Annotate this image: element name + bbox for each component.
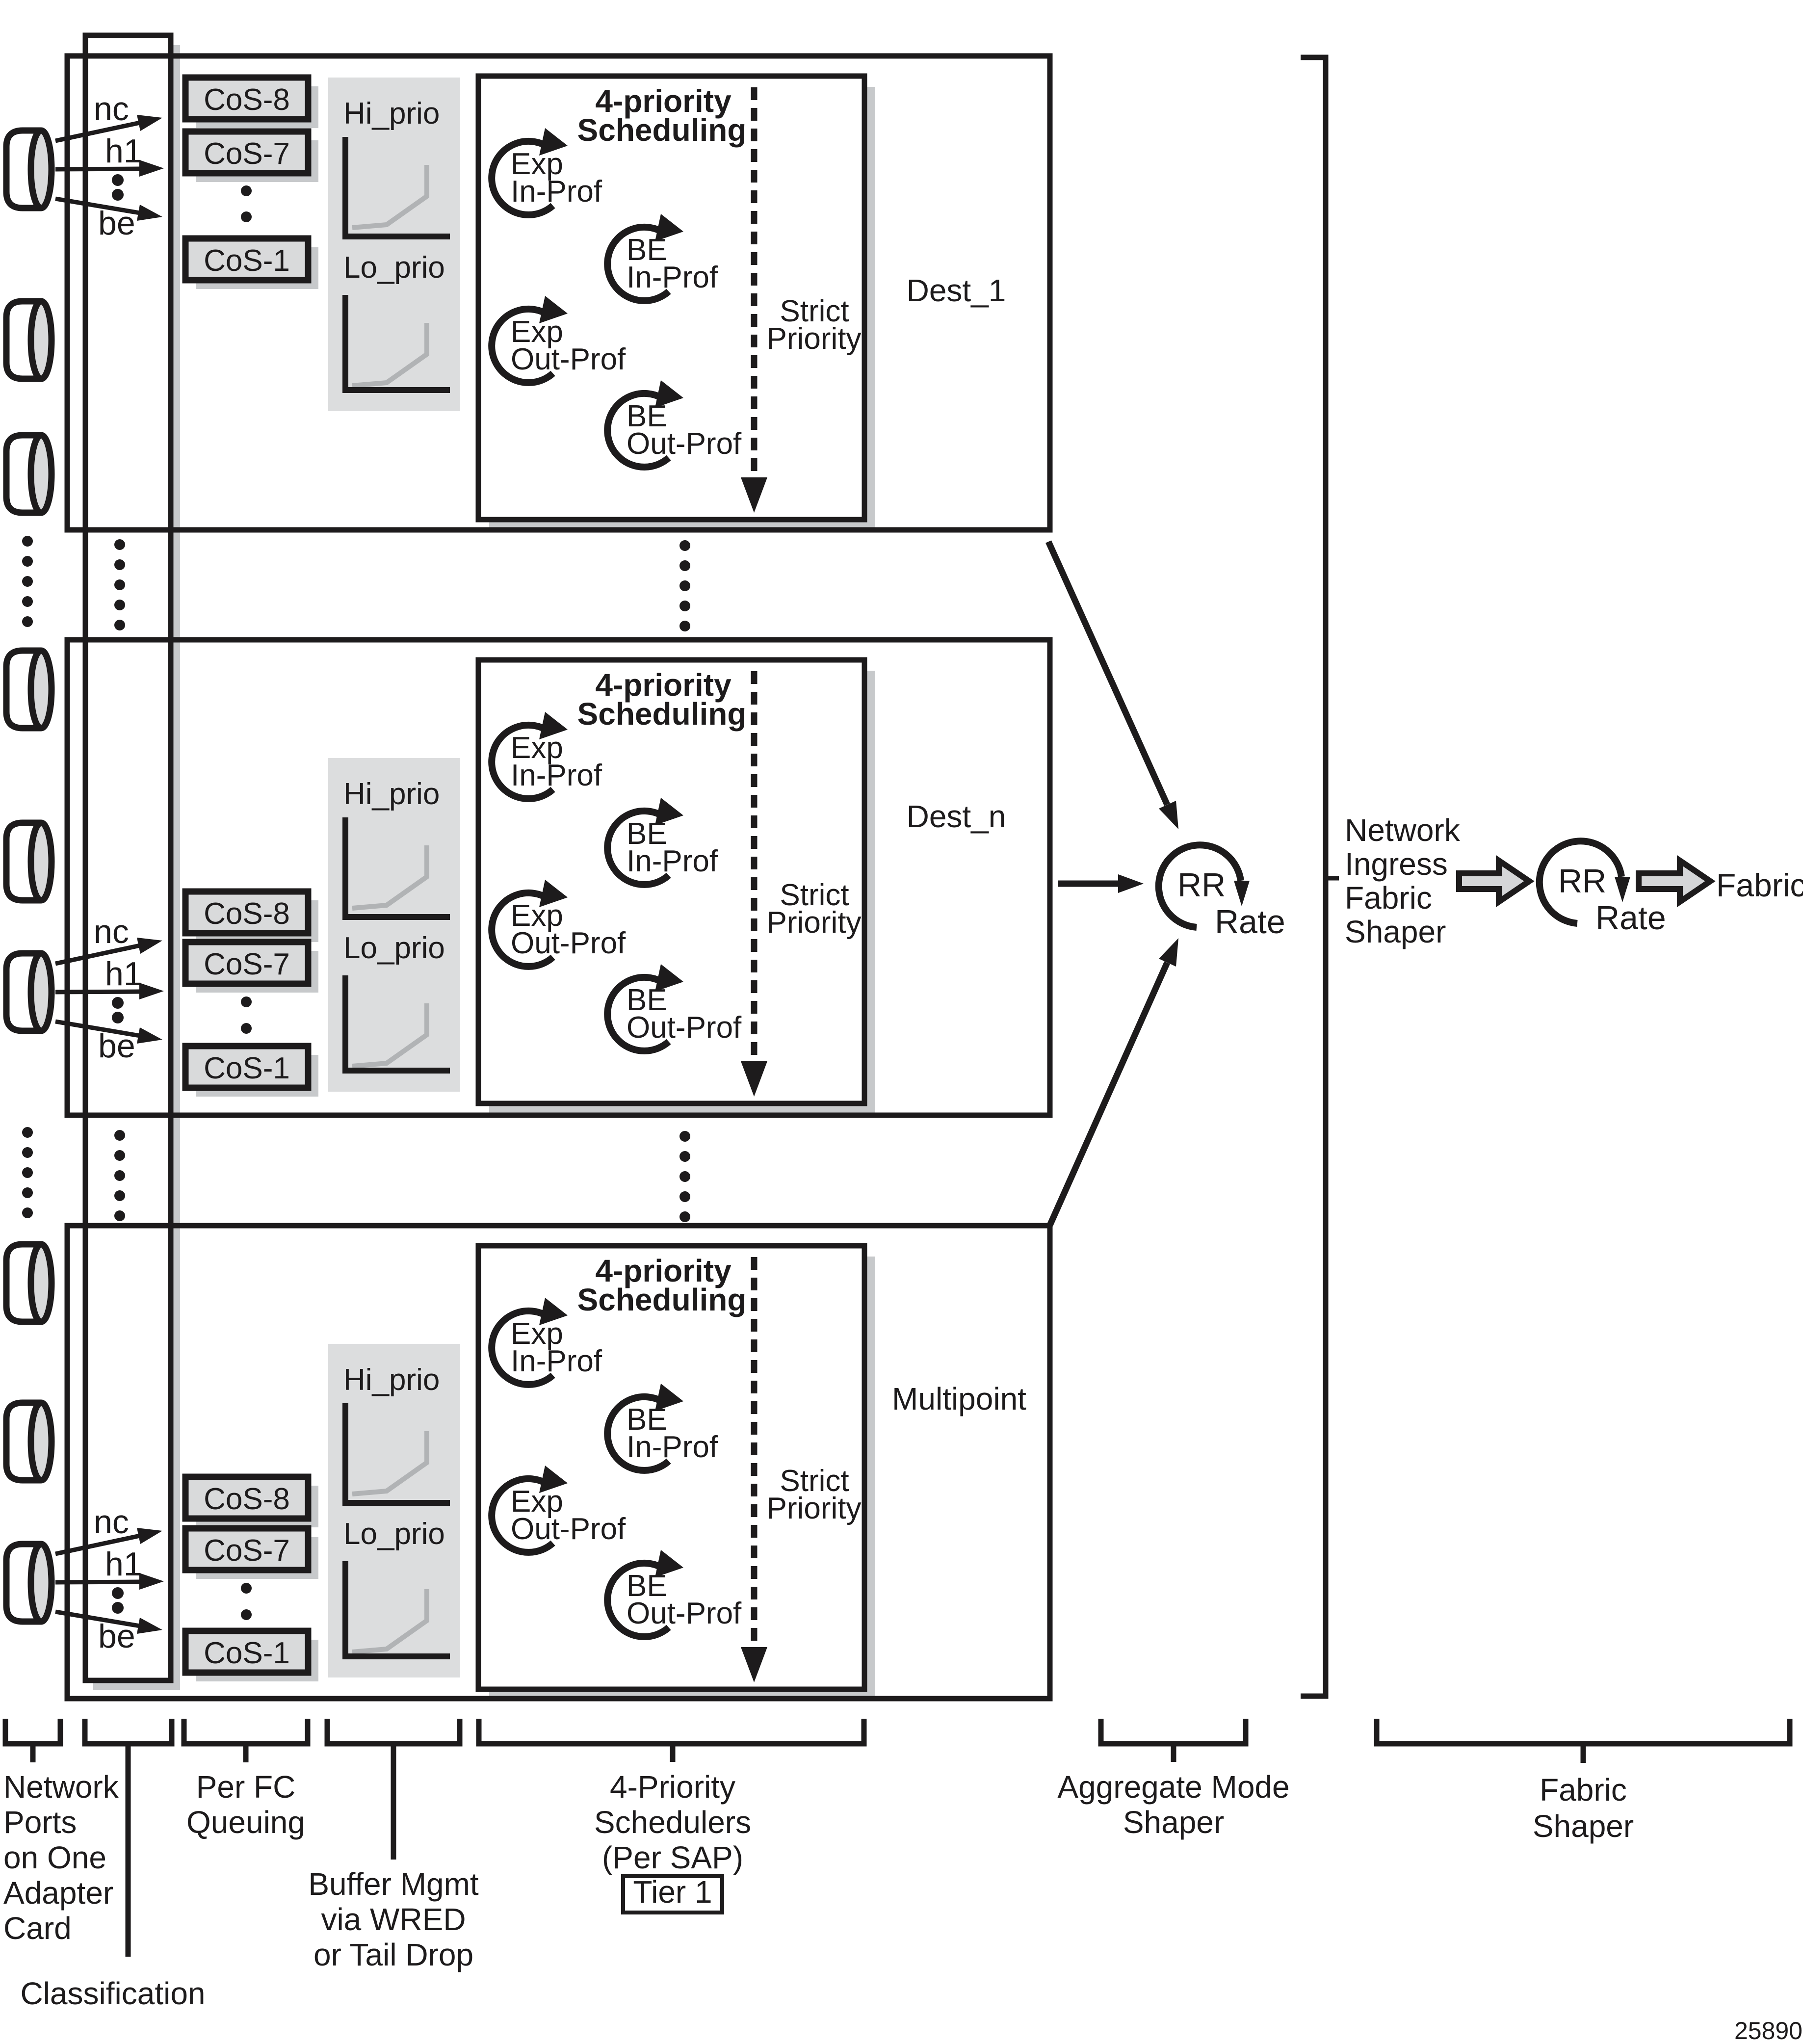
svg-text:Fabric: Fabric xyxy=(1540,1772,1627,1808)
network port cylinder P5 xyxy=(6,823,52,900)
scheduler loop BE Out-Prof (Dest_1) xyxy=(607,393,669,467)
queue box CoS-8 (Dest_n) xyxy=(185,891,308,933)
block arrow to fabric shaper RR xyxy=(1459,861,1529,902)
ellipsis dots classification column gap 1 xyxy=(114,539,125,630)
queue box CoS-8 (Dest_1) xyxy=(185,78,308,119)
graph axes lo (Dest_1) xyxy=(345,295,450,390)
ellipsis dots fan (Dest_1) xyxy=(112,174,124,186)
arrow nc (Dest_1) xyxy=(55,122,142,141)
svg-text:4-Priority: 4-Priority xyxy=(610,1769,735,1805)
classification strip shadow xyxy=(171,45,180,1690)
svg-text:be: be xyxy=(98,1618,135,1655)
svg-text:Adapter: Adapter xyxy=(3,1875,113,1911)
arrow be (Dest_1) xyxy=(55,199,140,213)
network port cylinder P6 xyxy=(6,953,52,1031)
queue box CoS-1 (Dest_n) xyxy=(185,1046,308,1088)
ellipsis dots queues (Dest_1) xyxy=(241,185,252,196)
svg-text:Aggregate Mode: Aggregate Mode xyxy=(1057,1769,1289,1805)
queue box CoS-1 (Multipoint) shadow xyxy=(196,1640,318,1681)
svg-text:Shaper: Shaper xyxy=(1123,1805,1224,1840)
4-priority scheduler box (Multipoint) xyxy=(478,1246,864,1689)
svg-text:h1: h1 xyxy=(105,1546,142,1583)
4-priority scheduler box (Dest_n) xyxy=(478,660,864,1103)
svg-text:Shaper: Shaper xyxy=(1533,1808,1634,1844)
wred curve lo (Multipoint) xyxy=(352,1589,427,1652)
block Multipoint outer box xyxy=(67,1226,1050,1699)
ellipsis dots fan (Dest_n) xyxy=(112,997,124,1009)
block Dest_n outer box xyxy=(67,640,1050,1115)
ellipsis dots queues (Multipoint) xyxy=(241,1583,252,1594)
svg-text:be: be xyxy=(98,205,135,242)
block Dest_1 outer box xyxy=(67,56,1050,530)
arrow block Multipoint to aggregate shaper xyxy=(1050,963,1167,1225)
arrow h1 (Dest_1) xyxy=(55,169,141,169)
arrow block Dest_1 to aggregate shaper xyxy=(1048,542,1167,805)
arrow block Dest_n to aggregate shaper xyxy=(1058,881,1121,887)
brace network ports xyxy=(5,1719,60,1744)
strict priority dashed arrow (Dest_n) xyxy=(751,671,758,1061)
network port cylinder P7 xyxy=(6,1244,52,1322)
queue box CoS-1 (Dest_1) shadow xyxy=(196,247,318,289)
svg-text:Scheduling: Scheduling xyxy=(577,696,747,732)
4-priority scheduler box (Multipoint) shadow xyxy=(489,1257,875,1700)
svg-text:Tier 1: Tier 1 xyxy=(633,1874,712,1910)
scheduler loop BE Out-Prof (Multipoint) xyxy=(607,1563,669,1637)
svg-text:Network: Network xyxy=(1345,812,1461,848)
ellipsis dots port column gap 2 xyxy=(22,1127,33,1218)
svg-text:Lo_prio: Lo_prio xyxy=(343,251,445,285)
queue box CoS-1 (Multipoint) xyxy=(185,1631,308,1673)
svg-text:Out-Prof: Out-Prof xyxy=(627,1011,742,1045)
svg-text:Lo_prio: Lo_prio xyxy=(343,1517,445,1551)
svg-text:Fabric: Fabric xyxy=(1345,880,1432,916)
svg-text:(Per SAP): (Per SAP) xyxy=(602,1840,743,1875)
svg-text:Network: Network xyxy=(3,1769,119,1805)
scheduler loop BE In-Prof (Dest_1) xyxy=(607,227,669,301)
brace fabric shaper xyxy=(1377,1719,1790,1744)
queue box CoS-8 (Multipoint) shadow xyxy=(196,1486,318,1527)
svg-text:CoS-1: CoS-1 xyxy=(204,1051,290,1085)
buffer mgmt panel (Multipoint) xyxy=(328,1344,460,1677)
queue box CoS-8 (Dest_1) shadow xyxy=(196,86,318,128)
wred curve lo (Dest_1) xyxy=(352,323,427,386)
svg-text:Out-Prof: Out-Prof xyxy=(511,926,626,960)
svg-text:RR: RR xyxy=(1177,866,1226,904)
buffer mgmt panel (Dest_1) xyxy=(328,78,460,411)
queue box CoS-8 (Multipoint) xyxy=(185,1477,308,1519)
arrow be (Multipoint) xyxy=(55,1612,140,1626)
buffer mgmt panel (Dest_n) xyxy=(328,758,460,1092)
network port cylinder P2 xyxy=(6,301,52,379)
svg-text:h1: h1 xyxy=(105,955,142,993)
brace buffer mgmt xyxy=(327,1719,460,1744)
block arrow to fabric xyxy=(1639,861,1710,902)
svg-text:Shaper: Shaper xyxy=(1345,914,1446,949)
queue box CoS-7 (Multipoint) xyxy=(185,1528,308,1570)
svg-text:Ports: Ports xyxy=(3,1805,77,1840)
network port cylinder P8 xyxy=(6,1403,52,1480)
tier 1 box xyxy=(623,1876,722,1913)
ellipsis dots scheduler column gap 1 xyxy=(679,540,690,631)
graph axes lo (Dest_n) xyxy=(345,975,450,1071)
svg-text:RR: RR xyxy=(1558,863,1606,900)
ellipsis dots classification column gap 2 xyxy=(114,1130,125,1221)
4-priority scheduler box (Dest_1) shadow xyxy=(489,87,875,530)
svg-text:Priority: Priority xyxy=(767,1492,862,1525)
brace classification xyxy=(85,1719,172,1744)
queue box CoS-7 (Dest_n) shadow xyxy=(196,951,318,993)
svg-text:via WRED: via WRED xyxy=(321,1902,466,1937)
network port cylinder P1 xyxy=(6,131,52,208)
ellipsis dots fan (Multipoint) xyxy=(112,1587,124,1599)
network port cylinder P3 xyxy=(6,435,52,513)
svg-text:Priority: Priority xyxy=(767,322,862,356)
arrow be (Dest_n) xyxy=(55,1022,140,1036)
graph axes hi (Dest_1) xyxy=(345,137,450,236)
strict priority dashed arrow (Dest_1) xyxy=(751,87,758,477)
svg-text:nc: nc xyxy=(94,90,129,128)
graph axes hi (Dest_n) xyxy=(345,817,450,917)
svg-text:Out-Prof: Out-Prof xyxy=(511,342,626,376)
classification strip xyxy=(85,35,171,1680)
scheduler loop BE Out-Prof (Dest_n) xyxy=(607,977,669,1051)
svg-text:Hi_prio: Hi_prio xyxy=(343,777,440,811)
svg-text:CoS-7: CoS-7 xyxy=(204,947,290,981)
scheduler loop Exp In-Prof (Dest_n) xyxy=(492,725,553,799)
svg-text:Schedulers: Schedulers xyxy=(594,1805,751,1840)
svg-text:Out-Prof: Out-Prof xyxy=(627,1597,742,1630)
arrow h1 (Dest_n) xyxy=(55,992,141,992)
wred curve hi (Dest_1) xyxy=(352,165,427,228)
scheduler loop Exp In-Prof (Multipoint) xyxy=(492,1311,553,1385)
svg-text:Queuing: Queuing xyxy=(186,1805,305,1840)
aggregate mode shaper RR circle xyxy=(1159,845,1241,927)
wred curve lo (Dest_n) xyxy=(352,1003,427,1066)
svg-text:Multipoint: Multipoint xyxy=(892,1381,1026,1416)
brace aggregate mode shaper xyxy=(1101,1719,1246,1744)
ellipsis dots scheduler column gap 2 xyxy=(679,1131,690,1222)
svg-text:CoS-1: CoS-1 xyxy=(204,1636,290,1670)
scheduler loop BE In-Prof (Multipoint) xyxy=(607,1397,669,1470)
svg-text:or Tail Drop: or Tail Drop xyxy=(314,1937,473,1972)
svg-text:Hi_prio: Hi_prio xyxy=(343,1363,440,1397)
svg-text:Out-Prof: Out-Prof xyxy=(627,427,742,461)
svg-text:h1: h1 xyxy=(105,132,142,170)
svg-text:Priority: Priority xyxy=(767,906,862,940)
svg-text:be: be xyxy=(98,1027,135,1065)
svg-text:Per FC: Per FC xyxy=(196,1769,296,1805)
ellipsis dots port column gap 1 xyxy=(22,536,33,627)
wred curve hi (Multipoint) xyxy=(352,1431,427,1494)
network port cylinder P4 xyxy=(6,651,52,728)
svg-text:Lo_prio: Lo_prio xyxy=(343,931,445,965)
queue box CoS-7 (Multipoint) shadow xyxy=(196,1537,318,1579)
svg-text:Ingress: Ingress xyxy=(1345,846,1448,882)
scheduler loop Exp Out-Prof (Multipoint) xyxy=(492,1479,553,1552)
queue box CoS-1 (Dest_n) shadow xyxy=(196,1055,318,1097)
svg-text:CoS-1: CoS-1 xyxy=(204,244,290,278)
svg-text:on One: on One xyxy=(3,1840,106,1875)
svg-text:CoS-8: CoS-8 xyxy=(204,83,290,117)
svg-text:Buffer Mgmt: Buffer Mgmt xyxy=(308,1866,479,1902)
queue box CoS-8 (Dest_n) shadow xyxy=(196,900,318,942)
svg-text:Out-Prof: Out-Prof xyxy=(511,1512,626,1546)
scheduler loop Exp Out-Prof (Dest_n) xyxy=(492,893,553,967)
svg-text:Scheduling: Scheduling xyxy=(577,1282,747,1317)
scheduler loop BE In-Prof (Dest_n) xyxy=(607,811,669,885)
svg-text:In-Prof: In-Prof xyxy=(511,1344,602,1378)
svg-text:Hi_prio: Hi_prio xyxy=(343,97,440,131)
arrow nc (Multipoint) xyxy=(55,1535,142,1554)
4-priority scheduler box (Dest_n) shadow xyxy=(489,671,875,1114)
svg-text:CoS-8: CoS-8 xyxy=(204,1482,290,1516)
svg-text:Rate: Rate xyxy=(1215,903,1285,941)
queue box CoS-7 (Dest_n) xyxy=(185,942,308,984)
network ingress fabric shaper bracket xyxy=(1301,57,1326,1696)
svg-text:CoS-7: CoS-7 xyxy=(204,1534,290,1568)
svg-text:In-Prof: In-Prof xyxy=(511,175,602,209)
wred curve hi (Dest_n) xyxy=(352,845,427,908)
queue box CoS-7 (Dest_1) xyxy=(185,131,308,173)
brace 4-priority schedulers xyxy=(479,1719,864,1744)
svg-text:nc: nc xyxy=(94,1503,129,1541)
svg-text:In-Prof: In-Prof xyxy=(627,1430,718,1464)
svg-text:Dest_n: Dest_n xyxy=(907,799,1006,834)
strict priority dashed arrow (Multipoint) xyxy=(751,1257,758,1647)
arrow nc (Dest_n) xyxy=(55,945,142,964)
svg-text:25890: 25890 xyxy=(1734,2017,1803,2044)
ellipsis dots queues (Dest_n) xyxy=(241,996,252,1007)
svg-text:In-Prof: In-Prof xyxy=(627,261,718,294)
arrow h1 (Multipoint) xyxy=(55,1582,141,1582)
svg-text:Fabric: Fabric xyxy=(1716,867,1803,903)
network port cylinder P9 xyxy=(6,1544,52,1622)
svg-text:nc: nc xyxy=(94,913,129,950)
svg-text:Rate: Rate xyxy=(1595,899,1666,937)
graph axes lo (Multipoint) xyxy=(345,1561,450,1656)
fabric shaper RR circle xyxy=(1540,841,1621,923)
svg-text:Scheduling: Scheduling xyxy=(577,112,747,148)
graph axes hi (Multipoint) xyxy=(345,1403,450,1503)
svg-text:CoS-8: CoS-8 xyxy=(204,897,290,931)
svg-text:Dest_1: Dest_1 xyxy=(907,273,1006,308)
scheduler loop Exp Out-Prof (Dest_1) xyxy=(492,309,553,383)
scheduler loop Exp In-Prof (Dest_1) xyxy=(492,141,553,215)
4-priority scheduler box (Dest_1) xyxy=(478,76,864,520)
svg-text:In-Prof: In-Prof xyxy=(627,844,718,878)
svg-text:CoS-7: CoS-7 xyxy=(204,137,290,171)
brace per FC queuing xyxy=(184,1719,308,1744)
queue box CoS-1 (Dest_1) xyxy=(185,238,308,280)
svg-text:Classification: Classification xyxy=(20,1976,205,2011)
queue box CoS-7 (Dest_1) shadow xyxy=(196,140,318,182)
svg-text:In-Prof: In-Prof xyxy=(511,759,602,792)
svg-text:Card: Card xyxy=(3,1911,72,1946)
